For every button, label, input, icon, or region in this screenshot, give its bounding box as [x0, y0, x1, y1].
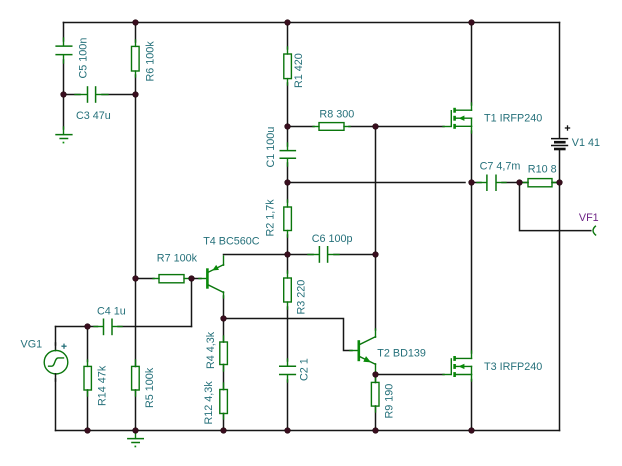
wire C4 right row [118, 326, 192, 328]
capacitor C6 [308, 246, 339, 263]
battery V1 [551, 139, 568, 149]
junction R8/T1 gate [373, 124, 379, 130]
capacitor C7 [477, 175, 506, 192]
svg-text:VF1: VF1 [579, 212, 599, 224]
transistor T4 [199, 256, 224, 298]
svg-text:R8 300: R8 300 [319, 108, 354, 120]
resistor R4 [220, 336, 228, 371]
junction R7/T4 base [189, 276, 195, 282]
svg-text:R10 8: R10 8 [528, 164, 557, 176]
junction T3 source bottom [469, 428, 475, 434]
wire C3 left [64, 94, 81, 96]
wire R8 left [288, 126, 315, 128]
wire C1 top [287, 127, 289, 147]
wire C4 left [88, 326, 98, 328]
wire R7 left [136, 278, 155, 280]
svg-text:T3 IRFP240: T3 IRFP240 [484, 361, 542, 373]
wire R1 bottom to node [287, 83, 289, 127]
svg-text:C1 100u: C1 100u [265, 127, 277, 168]
resistor R2 [284, 200, 292, 237]
wire R7 right to base node [189, 278, 192, 280]
wire base node down to C4 row [191, 279, 193, 327]
wire T1 drain up [471, 23, 473, 106]
svg-text:C6 100p: C6 100p [312, 233, 353, 245]
resistor R12 [220, 383, 228, 419]
junction R12 bottom [221, 428, 227, 434]
wire R14 top [87, 327, 89, 362]
wire x=471 node down to T3 drain [471, 183, 473, 354]
wire R9 top [375, 375, 377, 383]
output terminal VF1 [593, 226, 596, 235]
junction C1/R2 feedback [285, 180, 291, 186]
capacitor C1 [280, 143, 297, 166]
wire R10 right to battery rail [552, 182, 560, 184]
wire T4 collector to node [223, 296, 225, 319]
wire C3 right [102, 94, 136, 96]
resistor R14 [84, 360, 91, 396]
svg-text:C3 47u: C3 47u [76, 110, 111, 122]
wire ground lead left [63, 95, 65, 130]
junction T4 collector/R4 [221, 316, 227, 322]
resistor R9 [371, 377, 379, 412]
svg-text:R14 47k: R14 47k [96, 365, 108, 406]
junction R1/R8/C1 [285, 124, 291, 130]
junction R10/battery rail [557, 180, 563, 186]
wire R3 bottom through crossing to C2 [287, 307, 289, 361]
wire R9 bottom [375, 406, 377, 431]
svg-text:C2 1: C2 1 [299, 358, 311, 381]
wire bottom rail [56, 430, 560, 432]
wire C5 top lead from rail [63, 23, 65, 42]
junction C2 bottom [285, 428, 291, 434]
resistor R3 [284, 271, 292, 309]
svg-text:C5 100n: C5 100n [77, 38, 89, 79]
wire C6 right [334, 254, 376, 256]
wire VG1 top lead [55, 327, 57, 346]
junction C5/C3/ground [61, 92, 67, 98]
wire T4 collector node to R4 [223, 319, 225, 343]
wire T4 collector node to T2 base [224, 319, 353, 351]
ground bottom [127, 432, 144, 448]
junction T2 emitter/R9/T3 gate [373, 372, 379, 378]
wire top rail [63, 22, 559, 24]
wire feedback row y=182 [288, 182, 466, 184]
junction R9 bottom [373, 428, 379, 434]
wire C1 bottom [287, 163, 289, 183]
junction R14 bottom [85, 428, 91, 434]
wire x=375 column R8 node to C6 node [375, 127, 377, 255]
transistor T2 [350, 329, 376, 375]
wire battery negative rail down [559, 150, 561, 431]
wire C5 bottom to node [63, 60, 65, 95]
svg-text:VG1: VG1 [21, 338, 43, 350]
wire C6 left [288, 254, 314, 256]
junction R7 left column [133, 276, 139, 282]
wire T3 source down [471, 380, 473, 431]
resistor R7 [153, 275, 191, 283]
capacitor C4 [94, 319, 122, 336]
resistor R6 [132, 40, 140, 77]
resistor R10 [523, 179, 557, 187]
ground left [55, 127, 72, 143]
svg-text:R7 100k: R7 100k [157, 253, 198, 265]
junction top R6 [133, 20, 139, 26]
generator VG1 [44, 343, 68, 381]
svg-text:C4 1u: C4 1u [97, 306, 126, 318]
junction C3/R6 [133, 92, 139, 98]
wire T4 emitter row to R2 node [224, 254, 288, 256]
wire R6 bottom [135, 75, 137, 95]
wire R2 top [287, 183, 289, 203]
wire R1 top [287, 23, 289, 50]
wire T4 base lead [192, 278, 202, 280]
svg-text:C7 4,7m: C7 4,7m [480, 161, 521, 173]
wire VG1 top row [56, 326, 88, 328]
wire R8 right to node [349, 126, 376, 128]
wire C7 right [502, 182, 520, 184]
wire left column x=135 from C3 node to R7 node [135, 95, 137, 279]
junction top R1 [285, 20, 291, 26]
wire C2 bottom [287, 380, 289, 431]
svg-text:R4 4,3k: R4 4,3k [205, 331, 217, 369]
wire R12 bottom [223, 414, 225, 431]
svg-text:T2 BD139: T2 BD139 [377, 347, 426, 359]
junction T1 source/C7 [469, 180, 475, 186]
wire x=375 column C6 node to T2 collector [375, 255, 377, 331]
svg-text:R9 190: R9 190 [384, 384, 396, 419]
plus sign VG1 [61, 344, 66, 349]
wire T1 gate lead [376, 126, 445, 128]
junction R5/ground bottom [133, 428, 139, 434]
svg-text:R3 220: R3 220 [296, 280, 308, 315]
wire left column x=135 from R7 node to R5 [135, 279, 137, 367]
wire R14 bottom [87, 390, 89, 431]
resistor R5 [132, 360, 140, 396]
resistor R1 [284, 47, 292, 85]
junction top T1 drain [469, 20, 475, 26]
wire R6 top [135, 23, 137, 43]
junction C7/R10/VF1 [517, 180, 523, 186]
wire VG1 bottom lead [55, 379, 57, 431]
junction R2/C6/R3/T4 emitter [285, 252, 291, 258]
svg-text:T1 IRFP240: T1 IRFP240 [484, 113, 542, 125]
wire T1 source down to node [471, 131, 473, 183]
wire R2 bottom [287, 235, 289, 255]
svg-text:R5 100k: R5 100k [144, 367, 156, 408]
wire R4 to R12 [223, 365, 225, 390]
svg-text:R6 100k: R6 100k [145, 41, 157, 82]
svg-text:R2 1,7k: R2 1,7k [265, 199, 277, 237]
junction VG1/C4/R14 [85, 324, 91, 330]
svg-text:R12 4,3k: R12 4,3k [203, 381, 215, 425]
resistor R8 [313, 123, 350, 131]
mosfet T3 [443, 351, 472, 381]
svg-text:R1 420: R1 420 [293, 53, 305, 88]
svg-text:V1 41: V1 41 [572, 137, 600, 149]
wire T2 emitter node to T3 gate [376, 374, 445, 376]
plus sign V1 [565, 125, 570, 130]
wire VF1 tap [520, 183, 591, 231]
junction C6/T2 collector [373, 252, 379, 258]
wire C7 left [472, 182, 482, 184]
svg-text:T4 BC560C: T4 BC560C [203, 235, 260, 247]
capacitor C3 [75, 86, 108, 103]
capacitor C5 [55, 38, 72, 63]
wire R5 bottom [135, 390, 137, 431]
wire R10 left [520, 182, 529, 184]
wire R3 top [287, 255, 289, 274]
mosfet T1 [443, 103, 472, 133]
capacitor C2 [279, 359, 296, 382]
wire right rail top (to battery +) [559, 23, 561, 139]
